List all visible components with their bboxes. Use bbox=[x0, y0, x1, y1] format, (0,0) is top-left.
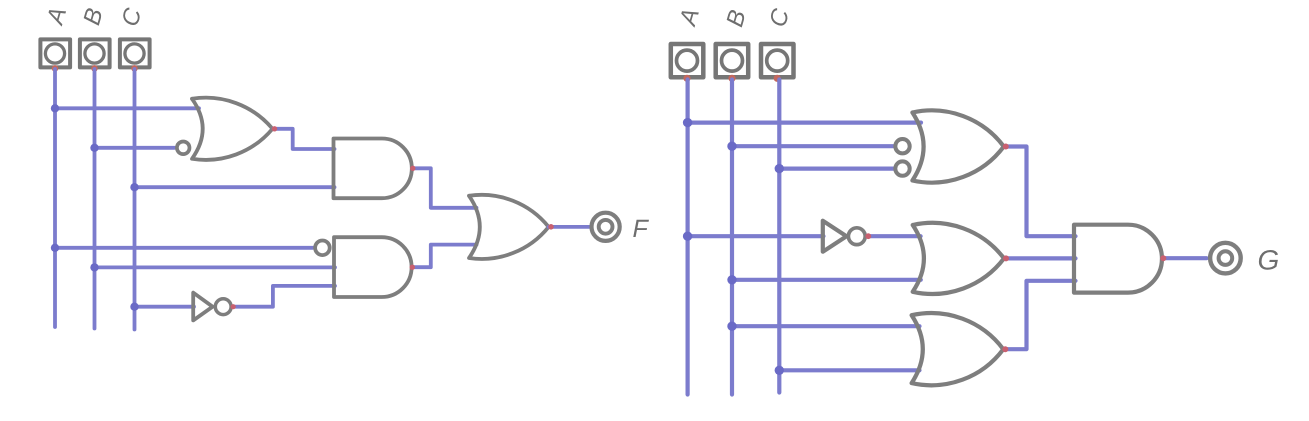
wire OR1 to AND1 input 1 bbox=[274, 129, 335, 149]
junction B1 bbox=[90, 144, 98, 152]
input C bbox=[120, 39, 150, 67]
not-gate NOT1 bbox=[193, 293, 212, 321]
wire C to OR6 input 2 bbox=[779, 368, 919, 372]
and-gate AND2 bbox=[334, 237, 412, 297]
node dot OR6 output bbox=[1002, 346, 1008, 352]
wire NOT2 to OR5 input 1 bbox=[868, 234, 921, 238]
wire C to OR4 bubble 2 bbox=[779, 167, 893, 171]
node dot OR3 output bbox=[548, 224, 554, 230]
svg-text:B: B bbox=[721, 7, 751, 30]
input A right bbox=[671, 44, 704, 77]
wire B to OR4 bubble 1 bbox=[732, 144, 893, 148]
wire AND1 to OR3 input 1 bbox=[413, 168, 477, 208]
bubble NOT2 bbox=[848, 228, 865, 245]
node dot input C right bbox=[774, 75, 781, 82]
junction C2 bbox=[130, 303, 138, 311]
node dot AND2 output bbox=[410, 265, 415, 270]
wire bus B vertical right bbox=[730, 80, 734, 395]
inversion bubble OR4 input 3 bbox=[895, 161, 909, 175]
wire OR6 to AND3 input 3 bbox=[1005, 281, 1076, 349]
node dot input B right bbox=[728, 75, 735, 82]
node dot input B bbox=[91, 65, 98, 72]
inversion bubble OR4 input 2 bbox=[895, 139, 909, 153]
wire A to OR4 input 1 bbox=[688, 120, 921, 124]
wire bus A vertical bbox=[53, 69, 57, 327]
wire A to AND2 bubble bbox=[55, 246, 313, 250]
wire bus C vertical right bbox=[777, 80, 781, 393]
inversion bubble AND2 input 1 bbox=[315, 241, 330, 256]
input C right bbox=[761, 44, 794, 77]
input B bbox=[80, 39, 110, 67]
wire A to OR1 input 1 bbox=[55, 106, 199, 110]
node dot OR4 output bbox=[1003, 144, 1009, 150]
svg-text:C: C bbox=[764, 5, 795, 30]
node dot AND3 output bbox=[1160, 255, 1166, 261]
svg-text:B: B bbox=[78, 5, 108, 28]
wire B to AND2 input 2 bbox=[95, 265, 336, 269]
node dot OR1 output bbox=[272, 126, 277, 131]
node dot OR5 output bbox=[1003, 255, 1009, 261]
output F symbol bbox=[592, 213, 620, 241]
wire bus B vertical bbox=[93, 69, 97, 329]
junction A2 bbox=[51, 244, 59, 252]
or-gate OR1 bbox=[192, 98, 273, 160]
junction C1 bbox=[130, 183, 138, 191]
not-gate NOT2 bbox=[823, 221, 847, 252]
svg-text:G: G bbox=[1257, 245, 1279, 276]
node dot AND1 output bbox=[410, 166, 415, 171]
wire B to OR1 input 2 bubble bbox=[95, 146, 175, 150]
and-gate AND1 bbox=[334, 139, 412, 199]
wire OR3 to output F bbox=[549, 225, 591, 229]
bubble NOT1 bbox=[215, 299, 231, 315]
wire A to NOT2 bbox=[688, 234, 824, 238]
junction A1 bbox=[51, 104, 59, 112]
wire NOT1 to AND2 input 3 bbox=[233, 286, 335, 307]
or-gate OR3 bbox=[469, 195, 549, 259]
junction B1 right bbox=[727, 142, 736, 151]
wire bus A vertical right bbox=[685, 80, 689, 395]
wire bus C vertical bbox=[133, 69, 137, 330]
input B right bbox=[716, 44, 749, 77]
wire B to OR6 input 1 bbox=[732, 324, 920, 328]
junction B3 right bbox=[727, 322, 736, 331]
wire OR4 to AND3 input 1 bbox=[1005, 147, 1076, 237]
node dot input A bbox=[52, 65, 59, 72]
node dot input A right bbox=[683, 75, 690, 82]
junction A2 right bbox=[683, 232, 692, 241]
svg-text:F: F bbox=[632, 215, 649, 243]
input A bbox=[40, 39, 70, 67]
svg-text:C: C bbox=[117, 5, 148, 30]
node dot NOT1 output bbox=[231, 304, 236, 309]
or-gate OR4 bbox=[912, 110, 1003, 182]
inversion bubble OR1 input 2 bbox=[177, 142, 190, 155]
wire B to OR5 input 2 bbox=[732, 278, 921, 282]
output G symbol bbox=[1210, 243, 1241, 274]
node dot NOT2 output bbox=[865, 233, 871, 239]
or-gate OR5 bbox=[913, 223, 1004, 294]
wire OR5 to AND3 input 2 bbox=[1005, 256, 1075, 260]
and-gate AND3 bbox=[1074, 225, 1162, 293]
node dot input C bbox=[131, 65, 138, 72]
junction B2 right bbox=[727, 275, 736, 284]
wire C to AND1 input 2 bbox=[135, 185, 335, 189]
junction B2 bbox=[90, 263, 98, 271]
wire AND2 to OR3 input 2 bbox=[412, 245, 477, 268]
junction A1 right bbox=[683, 118, 692, 127]
wire AND3 to output G bbox=[1163, 256, 1207, 260]
svg-text:A: A bbox=[41, 4, 72, 29]
svg-text:A: A bbox=[674, 5, 705, 30]
junction C1 right bbox=[775, 164, 784, 173]
wire C to NOT1 bbox=[135, 305, 195, 309]
or-gate OR6 bbox=[912, 313, 1004, 385]
junction C2 right bbox=[775, 366, 784, 375]
